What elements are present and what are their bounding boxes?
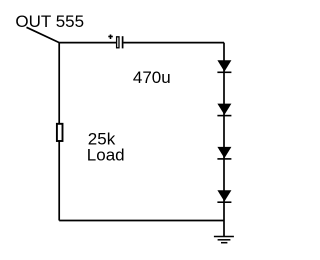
svg-text:Load: Load <box>87 146 125 165</box>
svg-text:470u: 470u <box>133 68 171 87</box>
svg-text:OUT 555: OUT 555 <box>15 12 84 31</box>
